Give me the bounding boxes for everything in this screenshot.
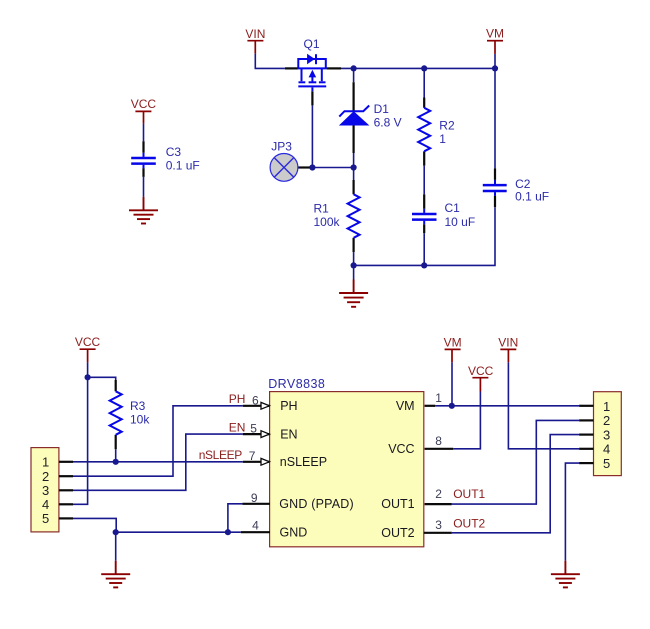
svg-text:0.1 uF: 0.1 uF xyxy=(166,158,200,172)
svg-text:OUT1: OUT1 xyxy=(381,497,414,511)
svg-text:5: 5 xyxy=(42,511,49,526)
svg-text:10 uF: 10 uF xyxy=(445,215,476,229)
svg-text:VIN: VIN xyxy=(245,27,265,41)
svg-text:1: 1 xyxy=(603,399,610,414)
svg-text:3: 3 xyxy=(603,427,610,442)
svg-text:10k: 10k xyxy=(130,413,150,427)
svg-text:VCC: VCC xyxy=(468,364,494,378)
svg-text:3: 3 xyxy=(42,483,49,498)
svg-text:VCC: VCC xyxy=(75,335,101,349)
svg-text:VCC: VCC xyxy=(131,97,157,111)
svg-text:9: 9 xyxy=(251,491,258,505)
svg-text:2: 2 xyxy=(42,469,49,484)
svg-text:6.8 V: 6.8 V xyxy=(374,115,402,129)
svg-text:EN: EN xyxy=(280,427,297,441)
svg-text:Q1: Q1 xyxy=(304,37,320,51)
svg-text:VM: VM xyxy=(396,399,415,413)
svg-text:1: 1 xyxy=(439,132,446,146)
svg-text:GND: GND xyxy=(280,525,308,539)
svg-text:GND (PPAD): GND (PPAD) xyxy=(279,497,354,511)
svg-text:1: 1 xyxy=(435,391,442,405)
svg-text:4: 4 xyxy=(603,442,610,457)
svg-text:C1: C1 xyxy=(445,201,461,215)
svg-text:2: 2 xyxy=(603,413,610,428)
svg-text:C3: C3 xyxy=(166,145,182,159)
svg-text:R3: R3 xyxy=(130,399,146,413)
svg-text:R2: R2 xyxy=(439,119,455,133)
svg-text:100k: 100k xyxy=(314,215,341,229)
svg-text:D1: D1 xyxy=(374,102,390,116)
svg-text:7: 7 xyxy=(249,449,256,463)
svg-text:2: 2 xyxy=(435,487,442,501)
svg-text:VIN: VIN xyxy=(498,335,518,349)
svg-text:VM: VM xyxy=(444,335,462,349)
svg-text:OUT2: OUT2 xyxy=(381,526,414,540)
svg-text:DRV8838: DRV8838 xyxy=(268,377,325,391)
svg-text:R1: R1 xyxy=(314,202,330,216)
svg-text:PH: PH xyxy=(229,392,246,406)
svg-text:3: 3 xyxy=(435,518,442,532)
svg-text:nSLEEP: nSLEEP xyxy=(280,455,327,469)
svg-text:VCC: VCC xyxy=(388,442,414,456)
svg-text:6: 6 xyxy=(252,393,259,407)
svg-text:OUT1: OUT1 xyxy=(453,487,485,501)
svg-text:1: 1 xyxy=(42,455,49,470)
svg-text:4: 4 xyxy=(252,519,259,533)
svg-text:4: 4 xyxy=(42,497,49,512)
svg-text:5: 5 xyxy=(603,456,610,471)
svg-text:EN: EN xyxy=(229,420,246,434)
svg-text:8: 8 xyxy=(435,434,442,448)
svg-text:5: 5 xyxy=(250,421,257,435)
svg-text:VM: VM xyxy=(486,27,504,41)
svg-text:0.1 uF: 0.1 uF xyxy=(515,189,549,203)
svg-text:nSLEEP: nSLEEP xyxy=(199,448,243,462)
svg-text:PH: PH xyxy=(280,399,297,413)
svg-text:OUT2: OUT2 xyxy=(453,516,485,530)
svg-text:JP3: JP3 xyxy=(271,139,292,153)
